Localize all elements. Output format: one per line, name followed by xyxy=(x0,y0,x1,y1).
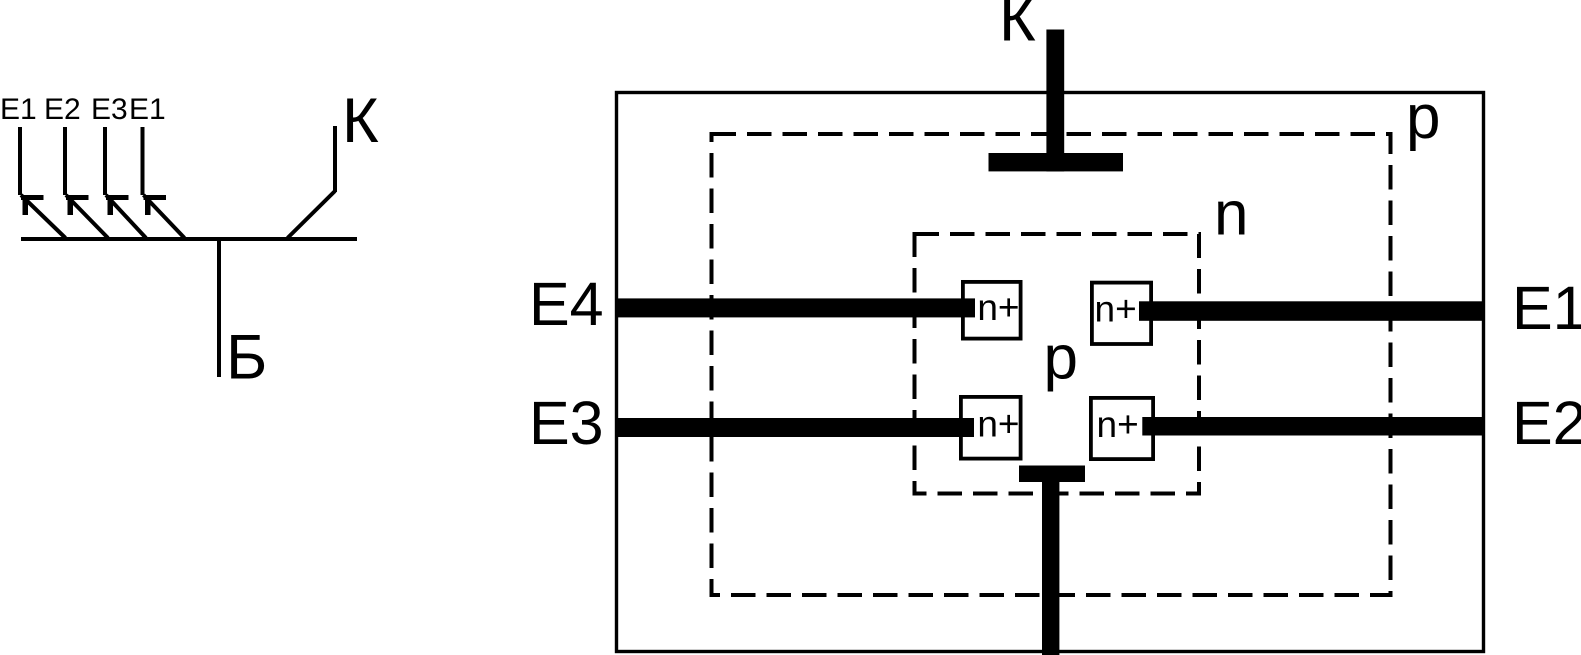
svg-text:E2: E2 xyxy=(44,93,81,126)
base contact (bottom, vertical bar) xyxy=(1042,476,1059,655)
emitter E1 arrowhead xyxy=(21,195,44,215)
svg-text:E3: E3 xyxy=(529,389,604,457)
emitter lead E4 wire (labelled E1) xyxy=(141,127,185,238)
emitter E4 arrowhead xyxy=(144,195,167,215)
svg-text:E1: E1 xyxy=(129,93,166,126)
base lead wire Б xyxy=(217,240,221,377)
svg-text:p: p xyxy=(1406,83,1440,152)
svg-text:E1: E1 xyxy=(0,93,37,126)
svg-text:К: К xyxy=(999,0,1036,55)
svg-text:E2: E2 xyxy=(1512,389,1581,457)
base contact (bottom, horizontal bar) xyxy=(1019,466,1085,483)
n+ emitter window bottom-right xyxy=(1091,398,1153,459)
emitter E2 arrowhead xyxy=(66,195,89,215)
collector contact К (top, vertical bar) xyxy=(1046,30,1064,172)
svg-text:E3: E3 xyxy=(91,93,128,126)
emitter lead E2 wire xyxy=(63,127,108,238)
base line xyxy=(21,237,357,241)
emitter lead E1 wire xyxy=(18,127,66,238)
svg-text:E4: E4 xyxy=(529,270,604,338)
emitter lead E3 wire xyxy=(103,127,146,238)
svg-text:n+: n+ xyxy=(1097,404,1139,445)
svg-text:К: К xyxy=(342,86,379,156)
collector lead wire К xyxy=(288,126,338,238)
svg-text:n+: n+ xyxy=(977,287,1019,328)
metal bar contact E3 (left bottom) xyxy=(615,418,974,437)
p collector region (dashed rectangle) xyxy=(712,134,1391,595)
metal bar contact E1 (right top) xyxy=(1139,301,1485,321)
n+ emitter window top-left xyxy=(963,282,1021,339)
svg-text:Б: Б xyxy=(226,323,267,393)
svg-text:p: p xyxy=(1044,324,1078,393)
n+ emitter window bottom-left xyxy=(961,397,1021,459)
svg-text:E1: E1 xyxy=(1512,274,1581,342)
svg-text:n: n xyxy=(1214,180,1248,249)
metal bar contact E4 (left top) xyxy=(615,298,975,317)
n+ emitter window top-right xyxy=(1092,283,1151,344)
crystal outline (solid rectangle) xyxy=(617,93,1484,652)
svg-text:n+: n+ xyxy=(977,404,1019,445)
metal bar contact E2 (right bottom) xyxy=(1142,417,1485,436)
n base region (dashed rectangle) xyxy=(915,234,1200,494)
svg-text:n+: n+ xyxy=(1095,289,1137,330)
collector contact К (top, horizontal bar) xyxy=(989,153,1124,171)
emitter E3 arrowhead xyxy=(106,195,129,215)
